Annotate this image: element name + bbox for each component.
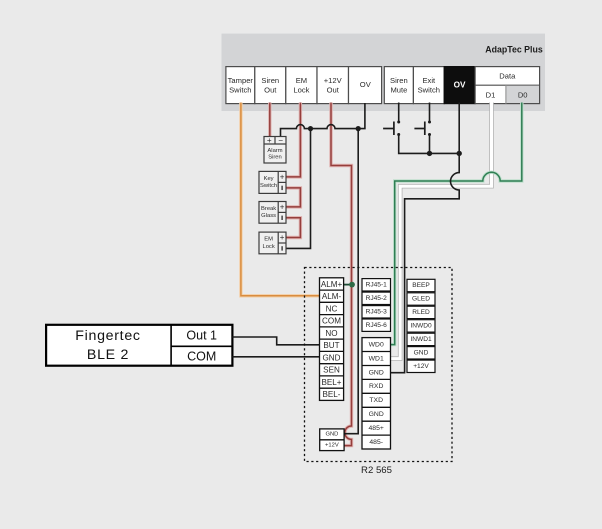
wire: D0 to WD0 (green, hops over D1 wire)	[391, 103, 522, 345]
svg-text:RLED: RLED	[412, 309, 430, 316]
svg-text:Glass: Glass	[261, 213, 276, 219]
Break Glass	[259, 202, 286, 224]
svg-text:+: +	[280, 203, 285, 212]
svg-text:+12V: +12V	[324, 76, 343, 85]
svg-text:BEEP: BEEP	[412, 282, 430, 289]
wire: ALM+ stub to +12V line (dark green)	[344, 284, 352, 286]
wire: Siren Mute to switch bus (black)	[399, 136, 460, 154]
svg-text:R2 565: R2 565	[361, 465, 392, 476]
wire: Siren Out to Alarm Siren + (red)	[268, 103, 271, 138]
wire: Exit Switch to switch bus (black)	[429, 136, 431, 154]
svg-text:Switch: Switch	[418, 85, 440, 94]
svg-text:NC: NC	[326, 304, 338, 313]
svg-text:+12V: +12V	[413, 363, 429, 370]
terminal Exit Switch	[413, 67, 444, 104]
svg-text:Break: Break	[261, 206, 276, 212]
junction: EM Lock return on 0V bus	[308, 126, 313, 131]
wire: Exit Switch drop (black)	[429, 103, 431, 122]
wire: D1 to WD1 (white)	[391, 103, 492, 359]
svg-text:EM: EM	[264, 237, 273, 243]
svg-text:SEN: SEN	[323, 366, 340, 375]
svg-text:ALM-: ALM-	[322, 292, 342, 301]
svg-text:+12V: +12V	[325, 442, 339, 448]
svg-text:WD0: WD0	[369, 341, 384, 348]
Key Switch	[259, 171, 286, 193]
svg-text:RJ45-3: RJ45-3	[366, 309, 388, 316]
svg-text:Switch: Switch	[260, 183, 277, 189]
svg-text:BUT: BUT	[323, 341, 339, 350]
terminal Data (D1 D0)	[475, 67, 539, 104]
svg-text:Siren: Siren	[390, 76, 408, 85]
wire: +12V Out to R2 +12V input (red, hops over GND line at bottom)	[331, 103, 352, 446]
terminal OV (power group)	[349, 67, 382, 104]
svg-text:GLED: GLED	[412, 296, 430, 303]
svg-text:Data: Data	[499, 72, 516, 81]
svg-text:485-: 485-	[369, 439, 383, 446]
svg-text:TXD: TXD	[369, 397, 383, 404]
wire: COM to GND (black)	[232, 356, 319, 358]
R2 565 controller (dashed outline)	[305, 268, 453, 462]
svg-text:ALM+: ALM+	[321, 280, 343, 289]
junction: ALM+ tap on +12V line (green dot)	[349, 282, 355, 288]
svg-text:485+: 485+	[369, 425, 384, 432]
svg-text:D0: D0	[518, 90, 528, 99]
svg-text:GND: GND	[323, 353, 341, 362]
svg-text:RXD: RXD	[369, 383, 383, 390]
R2 middle terminal strip WD0..485-	[362, 338, 391, 449]
svg-text:Mute: Mute	[390, 85, 407, 94]
svg-text:Switch: Switch	[229, 85, 251, 94]
terminal Siren Out	[255, 67, 286, 104]
svg-text:GND: GND	[369, 369, 384, 376]
terminal +12V Out	[317, 67, 349, 104]
wire: 0V bus from Alarm Siren - to OV drop (black, hops over red wires)	[281, 103, 365, 137]
svg-text:+: +	[280, 233, 285, 242]
Fingertec BLE 2 reader	[46, 325, 232, 366]
wire: EM Lock terminal to Key Switch + (red)	[286, 103, 300, 177]
svg-text:Alarm: Alarm	[267, 148, 282, 154]
svg-text:Out 1: Out 1	[186, 329, 217, 343]
push-button Exit Switch	[414, 121, 431, 137]
terminal Tamper Switch	[226, 67, 255, 104]
svg-text:+: +	[280, 173, 285, 182]
AdapTec Plus controller panel	[222, 34, 546, 111]
svg-text:Tamper: Tamper	[228, 76, 254, 85]
svg-text:+: +	[267, 136, 272, 145]
terminal OV (reader group, black)	[444, 67, 475, 104]
svg-text:INWD0: INWD0	[410, 323, 432, 330]
svg-text:INWD1: INWD1	[410, 336, 432, 343]
terminal EM Lock	[286, 67, 317, 104]
svg-text:−: −	[278, 136, 283, 145]
terminal Siren Mute	[384, 67, 413, 104]
junction: OV drop on 0V bus	[356, 126, 361, 131]
svg-text:Out: Out	[327, 85, 340, 94]
svg-text:EM: EM	[296, 76, 307, 85]
svg-text:D1: D1	[486, 90, 496, 99]
junction: Exit Switch on switch bus	[427, 151, 432, 156]
svg-text:NO: NO	[325, 329, 337, 338]
EM Lock device	[259, 232, 286, 254]
svg-text:Exit: Exit	[422, 76, 436, 85]
push-button Siren Mute	[383, 121, 400, 137]
wire: Siren Mute drop (black)	[398, 103, 400, 122]
svg-text:GND: GND	[414, 350, 429, 357]
R2 RJ45 terminals	[362, 279, 391, 332]
wire: Out 1 to BUT (black)	[232, 337, 319, 345]
svg-text:BEL-: BEL-	[323, 390, 341, 399]
svg-text:OV: OV	[360, 80, 372, 89]
Alarm Siren	[264, 136, 286, 163]
R2 power input terminals GND / +12V	[320, 429, 344, 451]
wire: OV drop to R2 GND input (black)	[344, 129, 358, 434]
svg-text:Lock: Lock	[262, 244, 274, 250]
svg-text:AdapTec Plus: AdapTec Plus	[485, 45, 543, 55]
svg-text:Out: Out	[264, 85, 277, 94]
wire: Key Switch - to Break Glass + (red)	[286, 188, 300, 207]
svg-text:BEL+: BEL+	[321, 378, 341, 387]
svg-text:Fingertec: Fingertec	[75, 328, 140, 344]
R2 right terminal column BEEP..+12V	[407, 279, 435, 372]
svg-text:WD1: WD1	[369, 355, 384, 362]
svg-text:RJ45-6: RJ45-6	[366, 322, 388, 329]
svg-text:Key: Key	[264, 176, 274, 182]
svg-text:Siren: Siren	[268, 155, 282, 161]
svg-text:COM: COM	[322, 317, 341, 326]
wire: EM Lock - return to 0V bus (black)	[286, 129, 311, 249]
svg-text:GND: GND	[369, 411, 384, 418]
R2 left terminal strip ALM+..BEL-	[320, 278, 344, 401]
wire: Break Glass - to EM Lock + (red)	[286, 218, 300, 238]
svg-text:RJ45-1: RJ45-1	[366, 282, 388, 289]
svg-text:OV: OV	[454, 80, 466, 89]
svg-text:COM: COM	[187, 350, 216, 364]
svg-text:RJ45-2: RJ45-2	[366, 295, 388, 302]
junction: OV reader drop on switch bus	[457, 151, 462, 156]
svg-text:BLE 2: BLE 2	[87, 347, 129, 363]
svg-text:Siren: Siren	[261, 76, 279, 85]
svg-text:Lock: Lock	[293, 85, 309, 94]
wire: Tamper Switch to ALM- (orange)	[241, 103, 320, 296]
svg-text:GND: GND	[325, 432, 338, 438]
wire: reader OV to R2 middle GND (black, hops over D0 and D1 wires)	[391, 103, 460, 373]
